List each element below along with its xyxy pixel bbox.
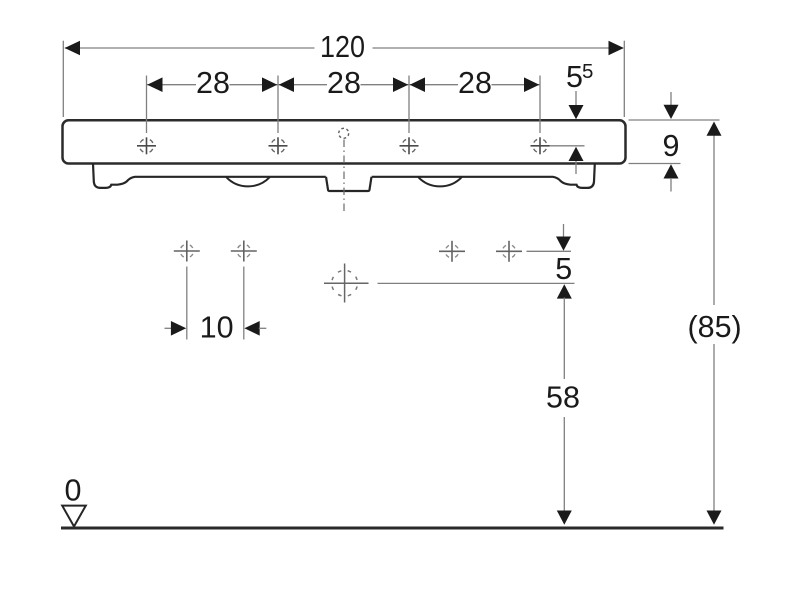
dim 10 arrow pointing right: [171, 321, 186, 336]
dim (85) arrow up at top: [707, 122, 722, 136]
drop line from cross b: [243, 267, 245, 340]
extension line tap hole 4: [539, 76, 541, 134]
centre dash-dot line: [343, 140, 345, 215]
dim 5.5 arrow up to tap level: [569, 147, 584, 161]
underside recess arc left: [226, 177, 270, 187]
extension line right for dim 120: [623, 41, 625, 117]
tap hole cross 3: [400, 137, 419, 154]
dim 9 arrow up: [664, 164, 679, 178]
washbasin underside profile with legs: [93, 164, 595, 188]
svg-text:5: 5: [582, 60, 593, 83]
dim 28 arrows pair at hole2: [262, 77, 277, 92]
dim 28 arrows pair at hole3: [393, 77, 408, 92]
drop line from cross a: [186, 267, 188, 340]
svg-text:28: 28: [196, 66, 230, 100]
dim 10 right tail: [259, 327, 267, 329]
drain cross vertical: [344, 264, 346, 303]
fixing hole cross lower-right a: [439, 241, 465, 262]
dim 58 vertical line: [563, 298, 565, 512]
svg-text:10: 10: [200, 311, 234, 345]
fixing hole cross lower-left a: [174, 241, 200, 262]
ground line: [61, 527, 724, 530]
extension line tap hole 1: [146, 76, 148, 134]
dim 120 arrow right: [609, 41, 624, 56]
datum triangle: [62, 506, 86, 527]
tap hole cross 2: [269, 137, 288, 154]
dim 28 chain line: [147, 84, 540, 86]
dim (85) arrow down at ground: [707, 511, 722, 525]
drain cross horizontal: [324, 282, 369, 284]
dim 9 arrow down: [664, 105, 679, 119]
extension line left for dim 120: [62, 41, 64, 117]
fixing level leader line right pair: [527, 250, 572, 252]
tap hole cross 1: [137, 137, 156, 154]
svg-text:(85): (85): [687, 310, 741, 344]
dim 28 arrow at hole4 pointing right: [524, 77, 539, 92]
top edge reference line right: [629, 119, 720, 121]
drain dashed circle: [332, 270, 358, 296]
tap hole cross 4: [531, 137, 550, 154]
fixing hole cross lower-right b: [496, 241, 522, 262]
overflow dashed circle top centre: [339, 128, 349, 138]
washbasin body outline: [63, 120, 626, 163]
svg-text:28: 28: [458, 66, 492, 100]
svg-text:28: 28: [327, 66, 361, 100]
dim 5.5 lower arrow shaft: [575, 161, 577, 174]
siphon notch at centre: [326, 177, 372, 191]
svg-text:0: 0: [65, 474, 82, 508]
dim 10 arrow pointing left: [244, 321, 259, 336]
dim 5.5 upper arrow shaft: [575, 91, 577, 106]
dim 58 arrow up at drain level: [557, 284, 572, 298]
svg-text:9: 9: [663, 129, 680, 163]
dim 9 lower arrow shaft: [670, 178, 672, 192]
drain level line: [378, 282, 575, 284]
dim 120 arrow left: [65, 41, 80, 56]
dim 58 arrow down at ground: [557, 511, 572, 525]
dim 120 line: [65, 47, 623, 49]
dim 9 upper arrow shaft: [670, 92, 672, 106]
tap hole level leader line: [550, 145, 585, 147]
fixing hole cross lower-left b: [231, 241, 257, 262]
dim 5.5 arrow down to basin top: [569, 105, 584, 119]
svg-text:58: 58: [546, 381, 580, 415]
dim 5 arrow down: [556, 237, 571, 251]
dim (85) vertical line: [713, 134, 715, 511]
svg-text:5: 5: [555, 252, 572, 286]
svg-text:120: 120: [320, 30, 365, 64]
dim 10 left tail: [165, 327, 173, 329]
svg-text:5: 5: [566, 60, 583, 94]
dim 28 arrow at hole1 pointing left: [147, 77, 162, 92]
extension line tap hole 3: [408, 76, 410, 134]
bottom edge reference line right: [629, 163, 681, 165]
extension line tap hole 2: [277, 76, 279, 134]
underside recess arc right: [418, 177, 462, 187]
dim 5 upper arrow shaft: [563, 224, 565, 238]
